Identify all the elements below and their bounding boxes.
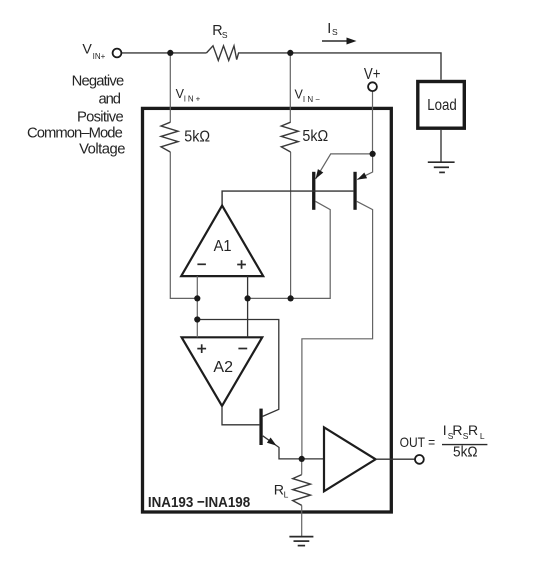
- svg-text:Load: Load: [427, 97, 457, 114]
- svg-text:S: S: [332, 27, 338, 37]
- svg-text:S: S: [222, 30, 228, 40]
- svg-text:IN+: IN+: [184, 95, 202, 104]
- svg-text:A1: A1: [214, 238, 232, 255]
- svg-text:I: I: [327, 21, 331, 37]
- svg-text:V+: V+: [364, 66, 381, 83]
- svg-text:INA193 −INA198: INA193 −INA198: [148, 494, 250, 511]
- svg-text:5kΩ: 5kΩ: [453, 444, 478, 460]
- svg-text:R: R: [468, 422, 478, 438]
- svg-text:V: V: [82, 42, 92, 58]
- svg-text:I: I: [443, 422, 447, 438]
- svg-text:5kΩ: 5kΩ: [184, 129, 210, 146]
- svg-text:Positive: Positive: [77, 110, 124, 126]
- svg-text:Negative: Negative: [72, 74, 125, 90]
- svg-text:A2: A2: [213, 359, 233, 376]
- svg-text:Common–Mode: Common–Mode: [27, 125, 123, 141]
- svg-text:L: L: [480, 431, 485, 441]
- svg-text:5kΩ: 5kΩ: [302, 128, 328, 145]
- svg-text:IN+: IN+: [93, 52, 106, 61]
- svg-text:Voltage: Voltage: [79, 142, 125, 158]
- svg-text:R: R: [274, 483, 284, 499]
- svg-text:R: R: [452, 422, 462, 438]
- svg-text:L: L: [284, 490, 289, 500]
- svg-text:IN−: IN−: [303, 95, 322, 104]
- svg-text:and: and: [99, 92, 122, 108]
- svg-text:OUT =: OUT =: [400, 435, 436, 450]
